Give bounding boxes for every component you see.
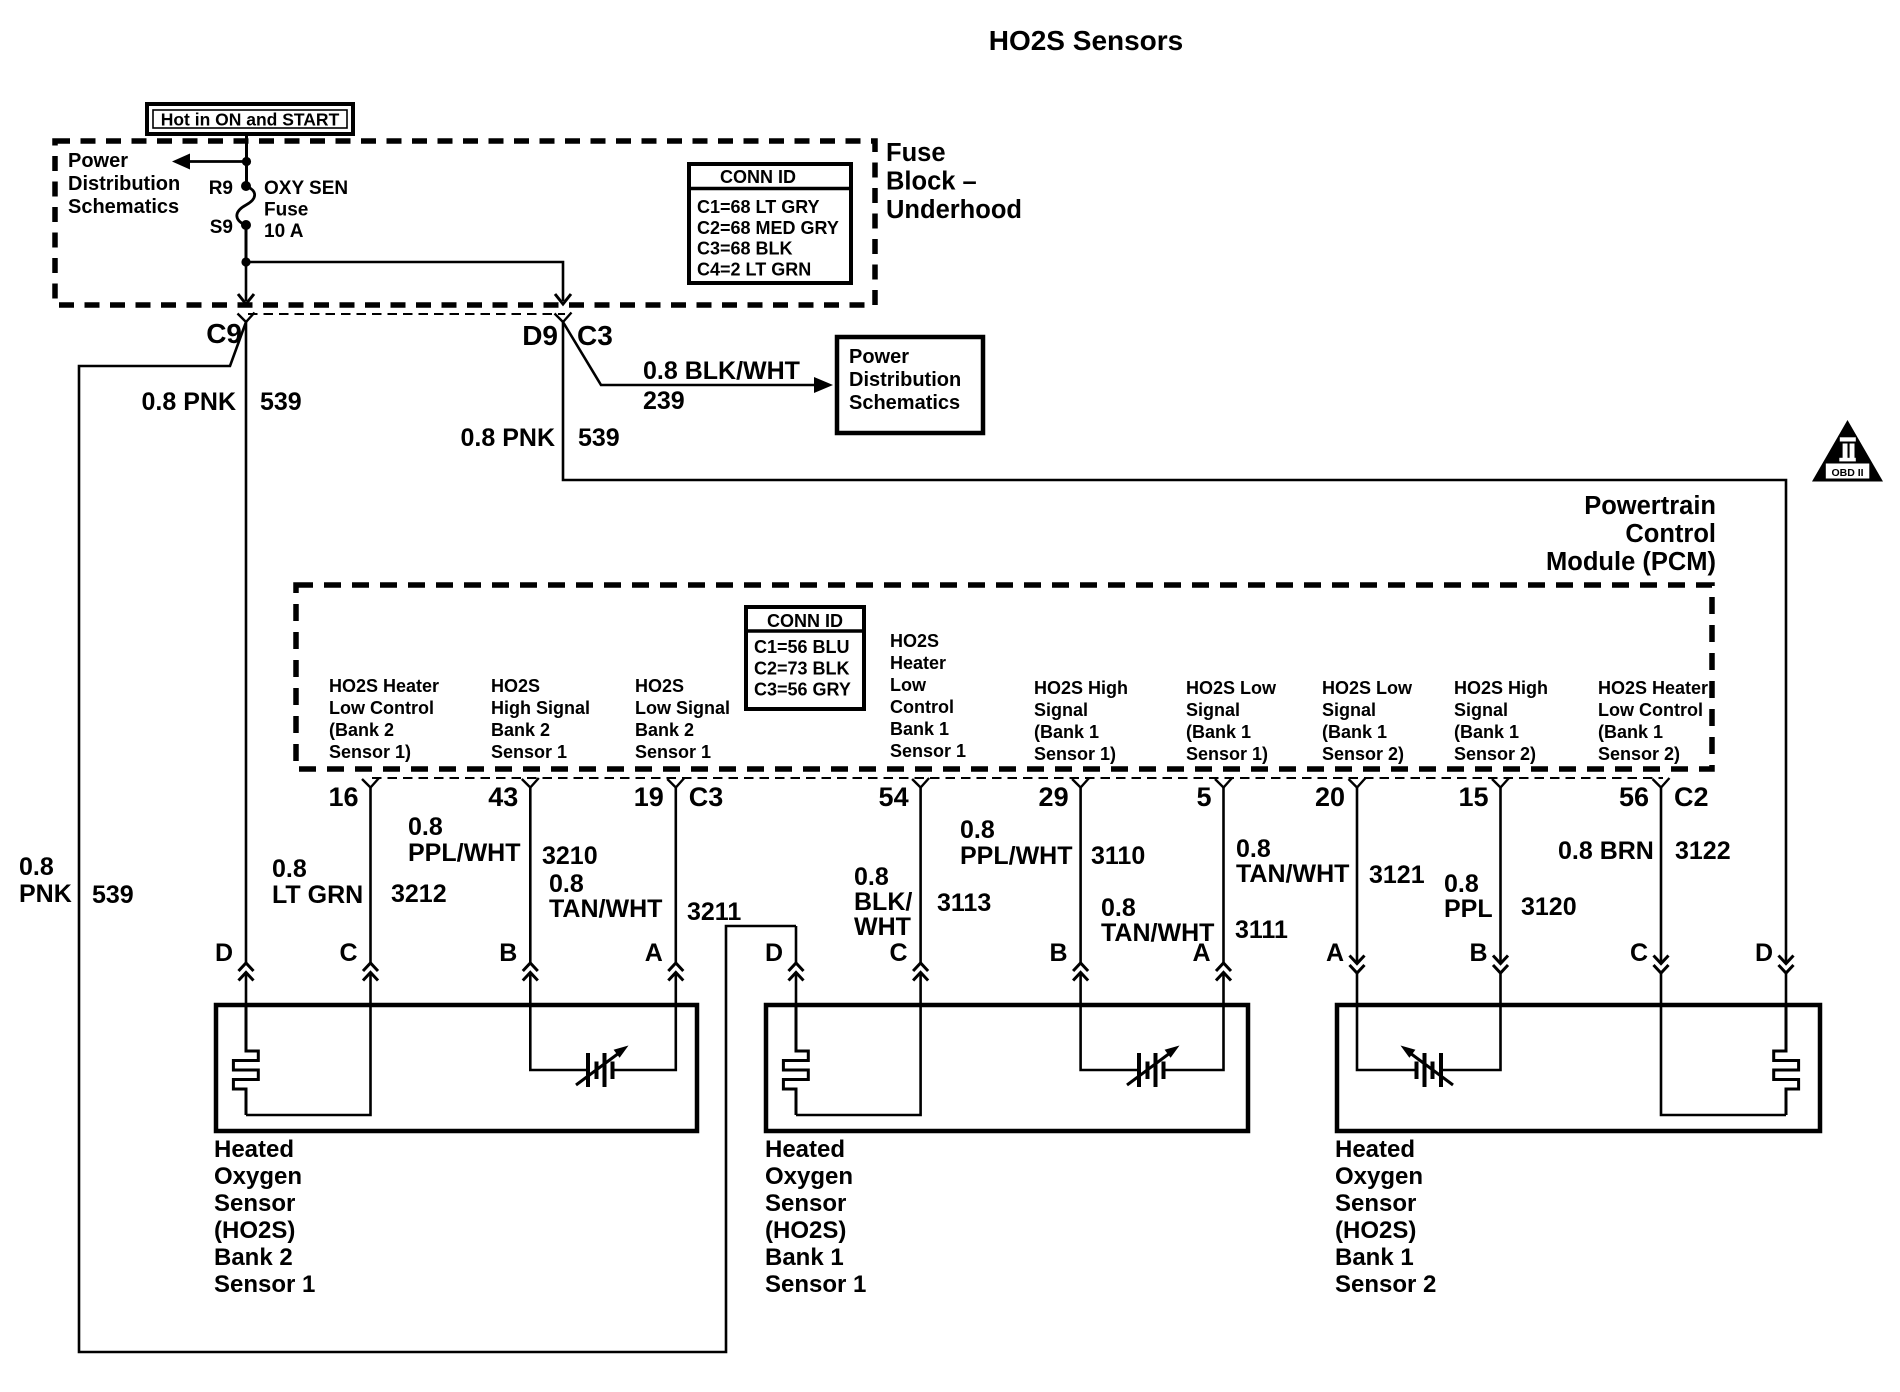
connector PCM pin 29 (1039, 778, 1090, 812)
wire 3211 TAN/WHT pin19-A (674, 788, 677, 964)
wire 539 PNK C9 to HO2S bank2 sensor1 pin D (245, 322, 248, 963)
svg-text:3110: 3110 (1091, 842, 1145, 870)
svg-text:Sensor 2): Sensor 2) (1454, 744, 1536, 764)
wire C9 branch diagonal to left run (79, 322, 796, 1352)
svg-text:Oxygen: Oxygen (214, 1163, 302, 1190)
svg-text:HO2S: HO2S (635, 676, 684, 696)
svg-text:Heated: Heated (214, 1136, 294, 1163)
wire PNK to sensor3 pin D lower (1785, 973, 1788, 1005)
svg-text:C2: C2 (1674, 782, 1709, 812)
svg-text:Sensor 1: Sensor 1 (890, 741, 966, 761)
svg-text:0.8 PNK: 0.8 PNK (142, 388, 236, 416)
svg-text:Oxygen: Oxygen (1335, 1163, 1423, 1190)
svg-text:0.8: 0.8 (854, 863, 889, 891)
connector PCM pin 15 (1458, 778, 1509, 812)
svg-text:Sensor 1: Sensor 1 (491, 742, 567, 762)
svg-text:C4=2 LT GRN: C4=2 LT GRN (697, 259, 811, 279)
svg-text:(HO2S): (HO2S) (765, 1217, 846, 1244)
heater element sensor2 (783, 1005, 808, 1115)
svg-text:0.8: 0.8 (1101, 894, 1136, 922)
svg-text:0.8: 0.8 (549, 870, 584, 898)
svg-text:Schematics: Schematics (68, 196, 179, 218)
svg-text:Low Signal: Low Signal (635, 698, 730, 718)
svg-text:C: C (1630, 939, 1648, 967)
connector C9 symbol (238, 313, 255, 323)
svg-text:3113: 3113 (937, 889, 991, 917)
node power distribution schematics box (837, 337, 983, 433)
label powertrain control module PCM (1546, 492, 1716, 576)
svg-text:Control: Control (1625, 520, 1716, 548)
label 0.8 PNK 539 (C9) (142, 388, 302, 416)
connector PCM pin 19 (634, 778, 724, 812)
wire 3122 BRN pin56-C (1660, 788, 1663, 963)
label 0.8 BLK/WHT 239 (643, 357, 800, 415)
wire 3210 PPL/WHT pin43-B (529, 788, 532, 964)
svg-text:HO2S Low: HO2S Low (1186, 678, 1277, 698)
svg-text:Power: Power (68, 150, 128, 172)
svg-text:CONN ID: CONN ID (720, 167, 796, 187)
svg-text:HO2S: HO2S (491, 676, 540, 696)
svg-text:B: B (1050, 939, 1068, 967)
fuse OXY SEN element (237, 186, 255, 225)
svg-text:HO2S: HO2S (890, 631, 939, 651)
svg-text:PNK: PNK (19, 880, 72, 908)
svg-text:C3=56 GRY: C3=56 GRY (754, 680, 851, 700)
wire fuse output to D9 branch (246, 262, 563, 294)
svg-text:15: 15 (1458, 782, 1488, 812)
svg-text:Distribution: Distribution (849, 369, 961, 391)
svg-text:Control: Control (890, 697, 954, 717)
svg-text:Sensor 1): Sensor 1) (1186, 744, 1268, 764)
svg-text:Sensor 1: Sensor 1 (214, 1271, 315, 1298)
svg-text:3120: 3120 (1521, 893, 1577, 921)
label PCM signal pin16 (329, 676, 439, 762)
label heated oxygen sensor bank1 sensor1 (765, 1136, 866, 1298)
svg-text:High Signal: High Signal (491, 698, 590, 718)
svg-text:Low: Low (890, 675, 927, 695)
connector dashed line PCM C1/C2 (372, 777, 1663, 779)
svg-text:3121: 3121 (1369, 861, 1425, 889)
wire D9 down and across to right sensor (563, 322, 1786, 962)
svg-text:(Bank 1: (Bank 1 (1598, 722, 1663, 742)
svg-text:Sensor: Sensor (214, 1190, 295, 1217)
connector PCM pin 43 (488, 778, 539, 812)
svg-text:Block –: Block – (886, 168, 977, 196)
svg-text:Bank 2: Bank 2 (214, 1244, 293, 1271)
svg-text:LT GRN: LT GRN (272, 881, 363, 909)
wire 3121 TAN/WHT pin20-A (1356, 788, 1359, 963)
svg-text:Bank 1: Bank 1 (890, 719, 949, 739)
inline connector 3120 PPL pin15-B (1493, 956, 1508, 974)
svg-text:Sensor 2): Sensor 2) (1322, 744, 1404, 764)
svg-text:TAN/WHT: TAN/WHT (1236, 860, 1349, 888)
svg-text:Bank 2: Bank 2 (635, 720, 694, 740)
sensor cell sensor1 (576, 1046, 629, 1088)
wire 3212 LT GRN pin16-C (369, 788, 372, 964)
svg-text:Distribution: Distribution (68, 173, 180, 195)
conn id table PCM (746, 607, 864, 709)
wire heater to C sensor3 (1661, 1005, 1786, 1115)
arrow into D9 (555, 294, 571, 304)
label PCM signal pin43 (491, 676, 590, 762)
HO2S bank1 sensor2 box (1337, 1005, 1820, 1131)
connector PCM pin 5 (1196, 778, 1232, 812)
svg-text:Fuse: Fuse (886, 139, 946, 167)
OBD II symbol (1812, 420, 1883, 482)
svg-text:D: D (765, 939, 783, 967)
wire heater to C sensor2 (796, 1005, 921, 1115)
svg-text:C: C (890, 939, 908, 967)
wire arrow to power distribution (172, 154, 247, 170)
connector dashed line C9-D9 (248, 313, 565, 315)
svg-text:C3: C3 (577, 320, 613, 351)
svg-text:C: C (339, 939, 357, 967)
svg-text:(HO2S): (HO2S) (1335, 1217, 1416, 1244)
svg-text:C2=68 MED GRY: C2=68 MED GRY (697, 218, 839, 238)
svg-text:Bank 1: Bank 1 (1335, 1244, 1414, 1271)
svg-text:OBD II: OBD II (1831, 467, 1863, 479)
svg-text:TAN/WHT: TAN/WHT (549, 895, 662, 923)
svg-text:3212: 3212 (391, 880, 447, 908)
label wire 3121 TAN/WHT (1236, 835, 1425, 889)
label PCM signal pin5 (1186, 678, 1277, 764)
wire B to cell sensor1 (530, 1005, 586, 1070)
wire 3110 PPL/WHT pin29-B (1079, 788, 1082, 964)
label PCM signal pin29 (1034, 678, 1128, 764)
svg-text:R9: R9 (209, 178, 233, 199)
svg-text:0.8: 0.8 (19, 853, 54, 881)
svg-text:0.8: 0.8 (1236, 835, 1271, 863)
svg-text:A: A (1326, 939, 1344, 967)
junction dot above fuse (242, 157, 251, 166)
HO2S bank1 sensor1 box (766, 1005, 1248, 1131)
svg-text:Sensor 1): Sensor 1) (329, 742, 411, 762)
inline connector 3122 BRN pin56-C (1654, 956, 1669, 974)
label 0.8 PNK 539 (left run) (19, 853, 134, 909)
inline connector 3111 TAN/WHT pin5-A (1216, 963, 1231, 981)
label PCM signal pin56 (1598, 678, 1708, 764)
svg-text:(Bank 1: (Bank 1 (1454, 722, 1519, 742)
svg-text:19: 19 (634, 782, 664, 812)
svg-text:C3: C3 (689, 782, 724, 812)
label 0.8 PNK 539 (D9) (461, 424, 620, 452)
label wire 3110 PPL/WHT (960, 816, 1145, 870)
svg-text:Sensor 2: Sensor 2 (1335, 1271, 1436, 1298)
node Hot in ON and START (147, 104, 353, 134)
svg-text:(Bank 1: (Bank 1 (1034, 722, 1099, 742)
wire 3120 PPL pin15-B (1499, 788, 1502, 963)
label wire 3212 LT GRN (272, 855, 447, 909)
junction dot fuse output (241, 257, 250, 266)
connector PCM pin 56 (1619, 778, 1709, 812)
svg-text:HO2S Low: HO2S Low (1322, 678, 1413, 698)
svg-text:HO2S High: HO2S High (1034, 678, 1128, 698)
svg-text:Signal: Signal (1454, 700, 1508, 720)
fuse terminal S9 dot (241, 220, 251, 230)
label wire 3211 TAN/WHT (549, 870, 741, 926)
connector PCM pin 54 (879, 778, 930, 812)
svg-text:D9: D9 (522, 320, 558, 351)
svg-text:54: 54 (879, 782, 909, 812)
HO2S bank2 sensor1 box (216, 1005, 697, 1131)
svg-text:10 A: 10 A (264, 221, 304, 242)
svg-text:Signal: Signal (1322, 700, 1376, 720)
label fuse block underhood (886, 139, 1022, 224)
svg-text:C2=73 BLK: C2=73 BLK (754, 658, 850, 678)
heater element sensor1 (233, 1005, 258, 1115)
label wire 3210 PPL/WHT (408, 813, 598, 870)
svg-text:Powertrain: Powertrain (1584, 492, 1716, 520)
connector D9 symbol (555, 313, 572, 323)
PCM dashed box (296, 585, 1712, 769)
svg-text:0.8 BLK/WHT: 0.8 BLK/WHT (643, 357, 800, 385)
inline connector sensor1 D (239, 963, 254, 981)
svg-text:Sensor: Sensor (765, 1190, 846, 1217)
svg-text:(Bank 2: (Bank 2 (329, 720, 394, 740)
svg-text:B: B (1469, 939, 1487, 967)
svg-text:PPL: PPL (1444, 895, 1493, 923)
svg-text:CONN ID: CONN ID (767, 611, 843, 631)
svg-text:43: 43 (488, 782, 518, 812)
svg-text:56: 56 (1619, 782, 1649, 812)
svg-text:Low Control: Low Control (329, 698, 434, 718)
label wire 3113 BLK/WHT (854, 863, 991, 941)
label heated oxygen sensor bank2 sensor1 (214, 1136, 315, 1298)
svg-text:Module (PCM): Module (PCM) (1546, 548, 1716, 576)
svg-text:3122: 3122 (1675, 837, 1731, 865)
svg-text:Sensor 1): Sensor 1) (1034, 744, 1116, 764)
label wire 3120 PPL (1444, 870, 1577, 923)
svg-text:Fuse: Fuse (264, 200, 308, 221)
svg-text:Bank 2: Bank 2 (491, 720, 550, 740)
wire A to cell sensor3 (1357, 1005, 1415, 1070)
inline connector 3110 PPL/WHT pin29-B (1073, 963, 1088, 981)
svg-text:B: B (499, 939, 517, 967)
svg-text:29: 29 (1039, 782, 1069, 812)
svg-text:Oxygen: Oxygen (765, 1163, 853, 1190)
svg-text:0.8: 0.8 (1444, 870, 1479, 898)
svg-text:PPL/WHT: PPL/WHT (408, 839, 521, 867)
svg-text:(Bank 1: (Bank 1 (1186, 722, 1251, 742)
wire 3111 TAN/WHT pin5-A (1222, 788, 1225, 964)
svg-text:3111: 3111 (1235, 916, 1288, 944)
svg-text:0.8: 0.8 (408, 813, 443, 841)
svg-text:Heated: Heated (1335, 1136, 1415, 1163)
label PCM signal pin54 (890, 631, 966, 761)
svg-text:Heater: Heater (890, 653, 946, 673)
svg-text:239: 239 (643, 387, 685, 415)
arrow into C9 (238, 262, 254, 304)
svg-text:0.8: 0.8 (272, 855, 307, 883)
svg-text:BLK/: BLK/ (854, 888, 912, 916)
svg-text:Heated: Heated (765, 1136, 845, 1163)
fuse block underhood dashed box (55, 141, 875, 305)
svg-text:HO2S High: HO2S High (1454, 678, 1548, 698)
svg-text:(Bank 1: (Bank 1 (1322, 722, 1387, 742)
svg-text:A: A (1192, 939, 1210, 967)
svg-text:Sensor 1: Sensor 1 (635, 742, 711, 762)
label PCM signal pin15 (1454, 678, 1548, 764)
svg-text:HO2S Heater: HO2S Heater (1598, 678, 1708, 698)
svg-text:(HO2S): (HO2S) (214, 1217, 295, 1244)
fuse F-OXY SEN terminal R9 dot (241, 181, 251, 191)
svg-text:0.8 BRN: 0.8 BRN (1558, 837, 1654, 865)
wire D9 branch BLK/WHT to power distribution (563, 322, 833, 393)
heater element sensor3 (1774, 1005, 1799, 1115)
svg-text:5: 5 (1196, 782, 1211, 812)
svg-text:Low Control: Low Control (1598, 700, 1703, 720)
svg-text:HO2S Sensors: HO2S Sensors (989, 25, 1184, 56)
svg-text:Schematics: Schematics (849, 392, 960, 414)
wire below fuse (245, 225, 248, 262)
svg-text:Sensor 2): Sensor 2) (1598, 744, 1680, 764)
svg-text:Bank 1: Bank 1 (765, 1244, 844, 1271)
svg-text:3211: 3211 (687, 898, 741, 926)
svg-text:WHT: WHT (854, 913, 911, 941)
label PCM signal pin19 (635, 676, 730, 762)
wire PNK run to sensor2 pin D (795, 926, 798, 963)
wire hot feed vertical (245, 134, 248, 162)
svg-text:Sensor: Sensor (1335, 1190, 1416, 1217)
connector PCM pin 20 (1315, 778, 1366, 812)
svg-text:539: 539 (92, 881, 134, 909)
connector PCM pin 16 (328, 778, 379, 812)
svg-text:539: 539 (578, 424, 620, 452)
svg-text:20: 20 (1315, 782, 1345, 812)
conn id table fuse block (689, 164, 851, 283)
svg-text:OXY SEN: OXY SEN (264, 178, 348, 199)
inline connector sensor3 D (1779, 956, 1794, 974)
inline connector 3212 LT GRN pin16-C (363, 963, 378, 981)
label power distribution schematics (fuse block) (68, 150, 180, 218)
svg-text:0.8 PNK: 0.8 PNK (461, 424, 555, 452)
inline connector 3211 TAN/WHT pin19-A (668, 963, 683, 981)
svg-text:Power: Power (849, 346, 909, 368)
wire heater to C sensor1 (246, 1005, 371, 1115)
svg-text:539: 539 (260, 388, 302, 416)
svg-text:C1=56 BLU: C1=56 BLU (754, 637, 850, 657)
svg-text:S9: S9 (210, 217, 233, 238)
svg-text:A: A (645, 939, 663, 967)
inline connector sensor2 D (789, 963, 804, 981)
inline connector 3210 PPL/WHT pin43-B (523, 963, 538, 981)
svg-text:C3=68 BLK: C3=68 BLK (697, 239, 793, 259)
svg-text:Signal: Signal (1034, 700, 1088, 720)
inline connector 3113 BLK/WHT pin54-C (913, 963, 928, 981)
label PCM signal pin20 (1322, 678, 1413, 764)
label wire 3111 TAN/WHT (1101, 894, 1288, 947)
svg-text:D: D (1755, 939, 1773, 967)
label heated oxygen sensor bank1 sensor2 (1335, 1136, 1436, 1298)
wire to fuse (245, 162, 248, 187)
sensor cell sensor3 (1401, 1046, 1454, 1088)
svg-text:HO2S Heater: HO2S Heater (329, 676, 439, 696)
svg-text:D: D (215, 939, 233, 967)
wire 3113 BLK/WHT pin54-C (919, 788, 922, 964)
label OXY SEN Fuse 10 A (264, 178, 348, 242)
wire B to cell sensor2 (1081, 1005, 1138, 1070)
svg-text:Signal: Signal (1186, 700, 1240, 720)
svg-text:3210: 3210 (542, 842, 598, 870)
inline connector 3121 TAN/WHT pin20-A (1350, 956, 1365, 974)
sensor cell sensor2 (1127, 1046, 1180, 1088)
label wire 3122 BRN (1558, 837, 1731, 865)
svg-text:C1=68 LT GRY: C1=68 LT GRY (697, 197, 820, 217)
svg-text:16: 16 (328, 782, 358, 812)
svg-text:Underhood: Underhood (886, 196, 1022, 224)
svg-text:PPL/WHT: PPL/WHT (960, 842, 1073, 870)
svg-text:Sensor 1: Sensor 1 (765, 1271, 866, 1298)
svg-text:0.8: 0.8 (960, 816, 995, 844)
svg-text:Hot in ON and START: Hot in ON and START (161, 110, 340, 130)
